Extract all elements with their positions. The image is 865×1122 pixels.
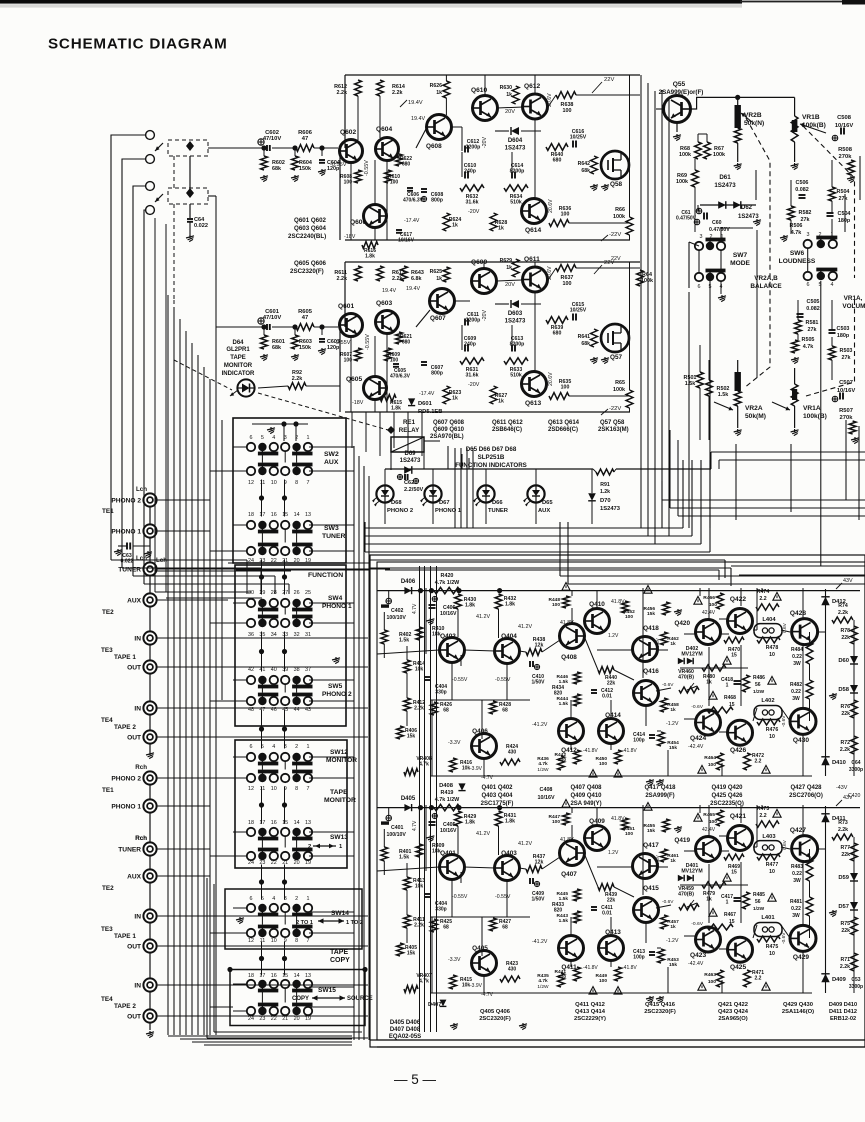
svg-text:10: 10	[271, 480, 277, 486]
svg-text:100: 100	[599, 978, 607, 984]
svg-text:0.22: 0.22	[791, 906, 801, 912]
svg-text:C504: C504	[838, 211, 851, 217]
svg-text:16: 16	[271, 512, 277, 518]
svg-text:OUT: OUT	[127, 665, 141, 672]
svg-text:56: 56	[755, 899, 761, 905]
svg-text:Q603 Q604: Q603 Q604	[294, 225, 327, 232]
svg-text:20V: 20V	[505, 282, 515, 288]
svg-text:-0.6V: -0.6V	[691, 704, 703, 710]
svg-text:PHONO 1: PHONO 1	[435, 508, 462, 514]
svg-text:-0.6V: -0.6V	[691, 921, 703, 927]
svg-text:Q427 Q428: Q427 Q428	[790, 785, 822, 791]
svg-text:100: 100	[390, 179, 399, 185]
svg-text:1.5k: 1.5k	[685, 381, 696, 387]
svg-text:Q424: Q424	[690, 735, 706, 742]
svg-text:R641: R641	[578, 334, 591, 340]
svg-text:-41.8V: -41.8V	[622, 965, 637, 971]
svg-text:56: 56	[755, 682, 761, 688]
svg-text:6: 6	[250, 896, 253, 902]
svg-text:1S2473: 1S2473	[505, 319, 526, 325]
svg-text:510k: 510k	[510, 373, 522, 379]
svg-text:D61: D61	[719, 174, 731, 181]
svg-text:100k: 100k	[679, 152, 691, 158]
svg-text:25: 25	[305, 590, 311, 596]
svg-text:28: 28	[271, 590, 277, 596]
svg-text:TAPE 1: TAPE 1	[114, 933, 136, 940]
svg-text:SW12: SW12	[330, 749, 348, 756]
svg-text:2SA1146(O): 2SA1146(O)	[782, 1009, 814, 1015]
svg-text:19.4V: 19.4V	[382, 288, 396, 294]
svg-text:R626: R626	[430, 83, 443, 89]
svg-text:AUX: AUX	[127, 598, 142, 605]
svg-text:47/10V: 47/10V	[263, 136, 282, 142]
svg-text:Q425 Q426: Q425 Q426	[711, 793, 743, 799]
svg-text:Lch: Lch	[136, 555, 147, 562]
svg-text:15k: 15k	[647, 828, 655, 834]
svg-text:-20V: -20V	[468, 382, 480, 388]
svg-text:R71: R71	[840, 957, 850, 963]
svg-text:1.5k: 1.5k	[399, 638, 409, 644]
svg-text:R475: R475	[766, 944, 779, 950]
svg-text:100: 100	[563, 108, 572, 114]
svg-text:20.6V: 20.6V	[547, 93, 553, 107]
svg-text:TUNER: TUNER	[118, 847, 141, 854]
svg-text:Q403: Q403	[501, 850, 517, 857]
svg-text:1/2W: 1/2W	[753, 689, 765, 695]
svg-text:100: 100	[625, 614, 633, 620]
svg-text:-43V: -43V	[836, 785, 848, 791]
svg-text:SW3: SW3	[324, 525, 339, 532]
svg-text:2: 2	[295, 435, 298, 441]
svg-text:D409 D410: D409 D410	[829, 1002, 857, 1008]
svg-text:29: 29	[259, 590, 265, 596]
svg-text:27k: 27k	[839, 196, 848, 202]
svg-text:150k: 150k	[299, 345, 311, 351]
svg-text:100: 100	[561, 385, 570, 391]
svg-text:680: 680	[553, 331, 562, 337]
svg-text:-41.8V: -41.8V	[583, 748, 598, 754]
svg-text:1S2473: 1S2473	[714, 182, 736, 189]
svg-text:430: 430	[508, 966, 517, 972]
svg-text:100k(B): 100k(B)	[803, 413, 827, 420]
svg-text:-0.55V: -0.55V	[365, 334, 371, 350]
svg-text:R446: R446	[557, 674, 569, 680]
svg-text:-0.6V: -0.6V	[781, 715, 787, 727]
svg-text:22: 22	[271, 1016, 277, 1022]
svg-text:1/2W: 1/2W	[537, 984, 549, 990]
svg-text:R73: R73	[838, 820, 848, 826]
svg-text:R642: R642	[578, 161, 591, 167]
svg-text:MV12YM: MV12YM	[681, 869, 702, 875]
svg-text:100k: 100k	[641, 278, 653, 284]
svg-text:BALANCE: BALANCE	[750, 283, 782, 290]
svg-text:TAPE 2: TAPE 2	[114, 724, 136, 731]
svg-text:-41.8V: -41.8V	[583, 965, 598, 971]
svg-text:-20V: -20V	[482, 137, 488, 148]
svg-text:R484: R484	[791, 647, 803, 653]
svg-text:R605: R605	[298, 309, 313, 315]
svg-text:Q611 Q612: Q611 Q612	[492, 420, 523, 426]
svg-text:Q606: Q606	[350, 219, 366, 226]
svg-text:2SA999(F): 2SA999(F)	[645, 793, 674, 799]
svg-text:C402: C402	[391, 608, 404, 614]
svg-text:Q58: Q58	[610, 181, 623, 188]
svg-text:C601: C601	[265, 309, 280, 315]
svg-text:D58: D58	[838, 687, 849, 693]
svg-text:Q418: Q418	[643, 625, 659, 632]
svg-text:48: 48	[248, 707, 254, 713]
svg-text:1/2W: 1/2W	[537, 767, 549, 773]
svg-text:Q407 Q408: Q407 Q408	[570, 785, 602, 791]
svg-text:R453: R453	[667, 957, 679, 963]
svg-text:TAPE 1: TAPE 1	[114, 654, 136, 661]
svg-text:43V: 43V	[843, 578, 853, 584]
svg-text:3300p: 3300p	[849, 767, 863, 773]
svg-text:0.01: 0.01	[602, 910, 612, 916]
svg-text:100: 100	[708, 762, 716, 768]
svg-text:Q411 Q412: Q411 Q412	[575, 1002, 605, 1008]
svg-text:5: 5	[261, 435, 264, 441]
svg-text:Q417: Q417	[643, 842, 659, 849]
svg-text:2.2k: 2.2k	[392, 276, 403, 282]
svg-text:100: 100	[552, 602, 560, 608]
svg-text:45: 45	[282, 707, 288, 713]
svg-text:3300p: 3300p	[849, 984, 863, 990]
svg-text:2SK163(M): 2SK163(M)	[598, 427, 629, 433]
svg-text:R74: R74	[838, 603, 848, 609]
svg-text:41.2V: 41.2V	[476, 614, 490, 620]
svg-text:1k: 1k	[452, 223, 458, 229]
svg-text:820: 820	[554, 907, 563, 913]
svg-text:SW6: SW6	[790, 250, 805, 257]
svg-text:R442: R442	[555, 752, 567, 758]
svg-text:22V: 22V	[604, 77, 614, 83]
svg-text:180p: 180p	[838, 218, 851, 224]
svg-text:SW4: SW4	[328, 595, 343, 602]
svg-text:VR2A,B: VR2A,B	[754, 275, 778, 282]
svg-text:R448: R448	[549, 597, 561, 603]
svg-text:0.082: 0.082	[795, 187, 809, 193]
svg-text:150k: 150k	[299, 166, 311, 172]
svg-text:27k: 27k	[808, 327, 817, 333]
svg-text:R435: R435	[537, 973, 549, 979]
svg-text:2SD666(C): 2SD666(C)	[548, 427, 578, 433]
svg-text:1k: 1k	[670, 924, 676, 930]
svg-text:3W: 3W	[792, 913, 800, 919]
svg-text:100: 100	[625, 831, 633, 837]
svg-text:Q605: Q605	[346, 376, 362, 383]
svg-text:510k: 510k	[510, 200, 522, 206]
svg-text:Q405: Q405	[472, 945, 488, 952]
svg-text:6: 6	[698, 284, 701, 290]
svg-text:R445: R445	[557, 891, 569, 897]
svg-text:1k: 1k	[670, 858, 676, 864]
svg-text:47: 47	[302, 136, 308, 142]
svg-text:3W: 3W	[793, 661, 801, 667]
svg-text:Q425: Q425	[730, 964, 746, 971]
svg-text:TE1: TE1	[102, 787, 114, 794]
svg-text:D604: D604	[508, 138, 523, 144]
svg-text:D60: D60	[838, 658, 849, 664]
svg-text:8: 8	[295, 480, 298, 486]
svg-text:2.2k: 2.2k	[838, 827, 848, 833]
svg-text:41.2V: 41.2V	[518, 624, 532, 630]
svg-text:15: 15	[282, 973, 288, 979]
svg-text:-17.4V: -17.4V	[419, 391, 435, 397]
svg-text:COPY: COPY	[292, 996, 309, 1002]
svg-text:100: 100	[709, 602, 717, 608]
svg-text:D411 D412: D411 D412	[829, 1009, 857, 1015]
svg-text:2 TO 1: 2 TO 1	[296, 920, 313, 926]
svg-text:VOLUME: VOLUME	[842, 303, 865, 310]
svg-text:2SC1775(F): 2SC1775(F)	[481, 801, 514, 807]
svg-text:IN: IN	[134, 983, 141, 990]
svg-text:13: 13	[305, 512, 311, 518]
svg-text:Q419 Q420: Q419 Q420	[711, 785, 743, 791]
svg-text:Q427: Q427	[790, 827, 806, 834]
svg-text:-41.2V: -41.2V	[532, 722, 548, 728]
svg-text:68: 68	[443, 924, 449, 930]
svg-text:SW13: SW13	[330, 834, 348, 841]
svg-text:11: 11	[260, 480, 266, 486]
svg-text:2.2k: 2.2k	[392, 90, 403, 96]
svg-text:2.2k: 2.2k	[838, 610, 848, 616]
svg-text:12k: 12k	[535, 860, 544, 866]
svg-text:100k: 100k	[613, 387, 625, 393]
svg-text:19.4V: 19.4V	[408, 100, 423, 106]
svg-text:C503: C503	[837, 326, 850, 332]
svg-text:R483: R483	[791, 864, 803, 870]
svg-text:R451: R451	[623, 826, 635, 832]
svg-text:D405: D405	[401, 796, 416, 802]
svg-text:D603: D603	[508, 311, 523, 317]
svg-text:D408: D408	[439, 783, 454, 789]
svg-text:TE3: TE3	[101, 926, 113, 933]
svg-text:-0.55V: -0.55V	[495, 894, 511, 900]
svg-text:2.2k: 2.2k	[840, 747, 850, 753]
svg-text:R464: R464	[704, 755, 716, 761]
svg-text:22: 22	[271, 860, 277, 866]
svg-text:R420: R420	[441, 573, 454, 579]
svg-text:6.8k: 6.8k	[411, 276, 422, 282]
svg-text:-20V: -20V	[468, 209, 480, 215]
svg-text:2.2: 2.2	[759, 813, 766, 819]
svg-text:MV12YM: MV12YM	[681, 652, 702, 658]
svg-text:1.8k: 1.8k	[365, 253, 375, 259]
svg-text:C508: C508	[837, 115, 852, 121]
svg-text:1k: 1k	[498, 399, 504, 405]
svg-text:SW14: SW14	[331, 910, 349, 917]
svg-text:46: 46	[271, 707, 277, 713]
svg-text:C408: C408	[540, 787, 553, 793]
svg-text:Q409 Q410: Q409 Q410	[570, 793, 602, 799]
svg-text:VR1B: VR1B	[802, 114, 820, 121]
svg-text:R485: R485	[753, 892, 765, 898]
svg-text:D57: D57	[838, 904, 849, 910]
svg-text:15k: 15k	[407, 950, 416, 956]
svg-text:C62: C62	[404, 480, 414, 486]
svg-text:16: 16	[271, 973, 277, 979]
svg-text:R419: R419	[441, 790, 454, 796]
svg-text:1k: 1k	[506, 92, 512, 98]
svg-text:-18V: -18V	[352, 400, 364, 406]
svg-text:3: 3	[284, 435, 287, 441]
svg-text:1/50V: 1/50V	[531, 679, 545, 685]
svg-text:1.2V: 1.2V	[608, 850, 619, 856]
svg-text:10/16V: 10/16V	[440, 611, 457, 617]
svg-text:-41.2V: -41.2V	[532, 939, 548, 945]
svg-text:-17.4V: -17.4V	[404, 218, 420, 224]
svg-text:7: 7	[307, 786, 310, 792]
svg-text:6: 6	[807, 282, 810, 288]
svg-text:AUX: AUX	[127, 874, 142, 881]
svg-text:14: 14	[294, 512, 300, 518]
svg-text:1k: 1k	[436, 90, 442, 96]
svg-text:43: 43	[305, 707, 311, 713]
svg-text:21: 21	[282, 860, 288, 866]
svg-text:32: 32	[294, 632, 300, 638]
svg-text:100p: 100p	[633, 737, 644, 743]
svg-text:4.7k 1/2W: 4.7k 1/2W	[435, 797, 460, 803]
svg-text:17: 17	[259, 973, 265, 979]
svg-text:4: 4	[831, 282, 834, 288]
svg-text:L401: L401	[761, 915, 775, 921]
svg-text:68: 68	[443, 707, 449, 713]
svg-text:TE2: TE2	[102, 609, 114, 616]
svg-text:2.2k: 2.2k	[292, 376, 303, 382]
svg-text:OUT: OUT	[127, 735, 141, 742]
svg-text:R463: R463	[704, 972, 716, 978]
svg-text:15k: 15k	[407, 733, 416, 739]
svg-text:-22V: -22V	[609, 406, 621, 412]
svg-text:100: 100	[709, 819, 717, 825]
svg-text:15k: 15k	[669, 962, 677, 968]
svg-text:R581: R581	[806, 320, 819, 326]
svg-text:11: 11	[260, 786, 266, 792]
svg-text:3: 3	[700, 234, 703, 240]
svg-text:MONITOR: MONITOR	[224, 363, 253, 369]
svg-text:1S2473: 1S2473	[600, 506, 621, 512]
svg-text:TE2: TE2	[102, 885, 114, 892]
svg-text:Rch: Rch	[135, 764, 147, 771]
svg-text:D66: D66	[492, 500, 503, 506]
svg-text:22V: 22V	[611, 256, 621, 262]
svg-text:SW15: SW15	[318, 987, 336, 994]
svg-text:20: 20	[294, 1016, 300, 1022]
svg-text:R481: R481	[790, 899, 802, 905]
svg-text:Q428: Q428	[790, 610, 806, 617]
svg-text:68: 68	[502, 707, 508, 713]
svg-text:2SC2229(Y): 2SC2229(Y)	[574, 1016, 606, 1022]
svg-text:2SA999(E)or(F): 2SA999(E)or(F)	[659, 89, 704, 96]
svg-text:-18V: -18V	[344, 234, 356, 240]
svg-text:D65: D65	[542, 500, 553, 506]
svg-text:15: 15	[282, 512, 288, 518]
svg-text:R78: R78	[840, 628, 850, 634]
svg-text:Q607: Q607	[430, 315, 446, 322]
svg-text:100k: 100k	[713, 152, 725, 158]
svg-text:R582: R582	[799, 210, 812, 216]
svg-text:38: 38	[294, 667, 300, 673]
svg-text:17: 17	[259, 820, 265, 826]
svg-text:1S2473: 1S2473	[400, 458, 421, 464]
svg-text:R486: R486	[753, 675, 765, 681]
svg-text:68k: 68k	[272, 345, 281, 351]
svg-text:Q55: Q55	[673, 81, 686, 88]
svg-text:-42.4V: -42.4V	[688, 961, 704, 967]
svg-text:12: 12	[248, 938, 254, 944]
svg-text:-0.55V: -0.55V	[495, 677, 511, 683]
svg-text:R458: R458	[667, 702, 679, 708]
svg-text:100: 100	[552, 819, 560, 825]
svg-text:1.5k: 1.5k	[718, 392, 729, 398]
svg-text:10/16V: 10/16V	[398, 237, 415, 243]
svg-text:10: 10	[271, 938, 277, 944]
svg-text:R91: R91	[600, 482, 610, 488]
svg-text:Q423: Q423	[690, 952, 706, 959]
svg-text:Q408: Q408	[561, 654, 577, 661]
svg-text:23: 23	[259, 860, 265, 866]
svg-text:18: 18	[248, 820, 254, 826]
svg-text:2SC2320(F): 2SC2320(F)	[479, 1016, 511, 1022]
svg-text:R454: R454	[667, 740, 679, 746]
svg-text:23: 23	[259, 1016, 265, 1022]
svg-text:PHONO 2: PHONO 2	[322, 691, 352, 698]
svg-text:50k(N): 50k(N)	[744, 120, 764, 127]
svg-text:Rch: Rch	[135, 835, 147, 842]
svg-text:800p: 800p	[431, 371, 443, 377]
svg-text:680: 680	[553, 158, 562, 164]
svg-text:D410: D410	[832, 760, 846, 766]
svg-text:20: 20	[294, 860, 300, 866]
svg-text:41: 41	[259, 667, 265, 673]
svg-text:Q57: Q57	[610, 354, 623, 361]
svg-text:2.2: 2.2	[755, 758, 762, 764]
svg-text:L403: L403	[762, 834, 776, 840]
svg-text:VR2A: VR2A	[745, 405, 763, 412]
svg-text:Q413: Q413	[605, 929, 621, 936]
svg-text:C64: C64	[851, 760, 860, 766]
svg-text:R629: R629	[500, 258, 513, 264]
svg-text:OUT: OUT	[127, 1014, 141, 1021]
svg-text:Q419: Q419	[674, 837, 690, 844]
svg-text:820: 820	[554, 690, 563, 696]
svg-text:Q609 Q610: Q609 Q610	[433, 427, 465, 433]
svg-text:D70: D70	[600, 498, 611, 504]
svg-text:12: 12	[248, 480, 254, 486]
svg-text:3W: 3W	[792, 696, 800, 702]
svg-text:L402: L402	[761, 698, 774, 704]
svg-text:16: 16	[271, 820, 277, 826]
svg-text:Q613: Q613	[525, 400, 541, 407]
svg-text:Q405 Q406: Q405 Q406	[480, 1009, 511, 1015]
svg-text:C420: C420	[848, 793, 861, 799]
svg-text:4: 4	[272, 896, 275, 902]
svg-text:R467: R467	[724, 912, 736, 918]
svg-text:L404: L404	[762, 617, 776, 623]
svg-text:22k: 22k	[841, 928, 850, 934]
svg-text:R456: R456	[644, 606, 656, 612]
svg-text:1/2W: 1/2W	[753, 906, 765, 912]
svg-text:100: 100	[558, 974, 566, 980]
svg-text:100k: 100k	[676, 179, 688, 185]
svg-text:2SC2320(F): 2SC2320(F)	[644, 1009, 676, 1015]
svg-text:10/16V: 10/16V	[537, 795, 554, 801]
svg-text:10: 10	[271, 786, 277, 792]
svg-text:VR1A,: VR1A,	[844, 295, 863, 302]
svg-text:4: 4	[272, 435, 275, 441]
svg-text:-3.9V: -3.9V	[470, 766, 483, 772]
